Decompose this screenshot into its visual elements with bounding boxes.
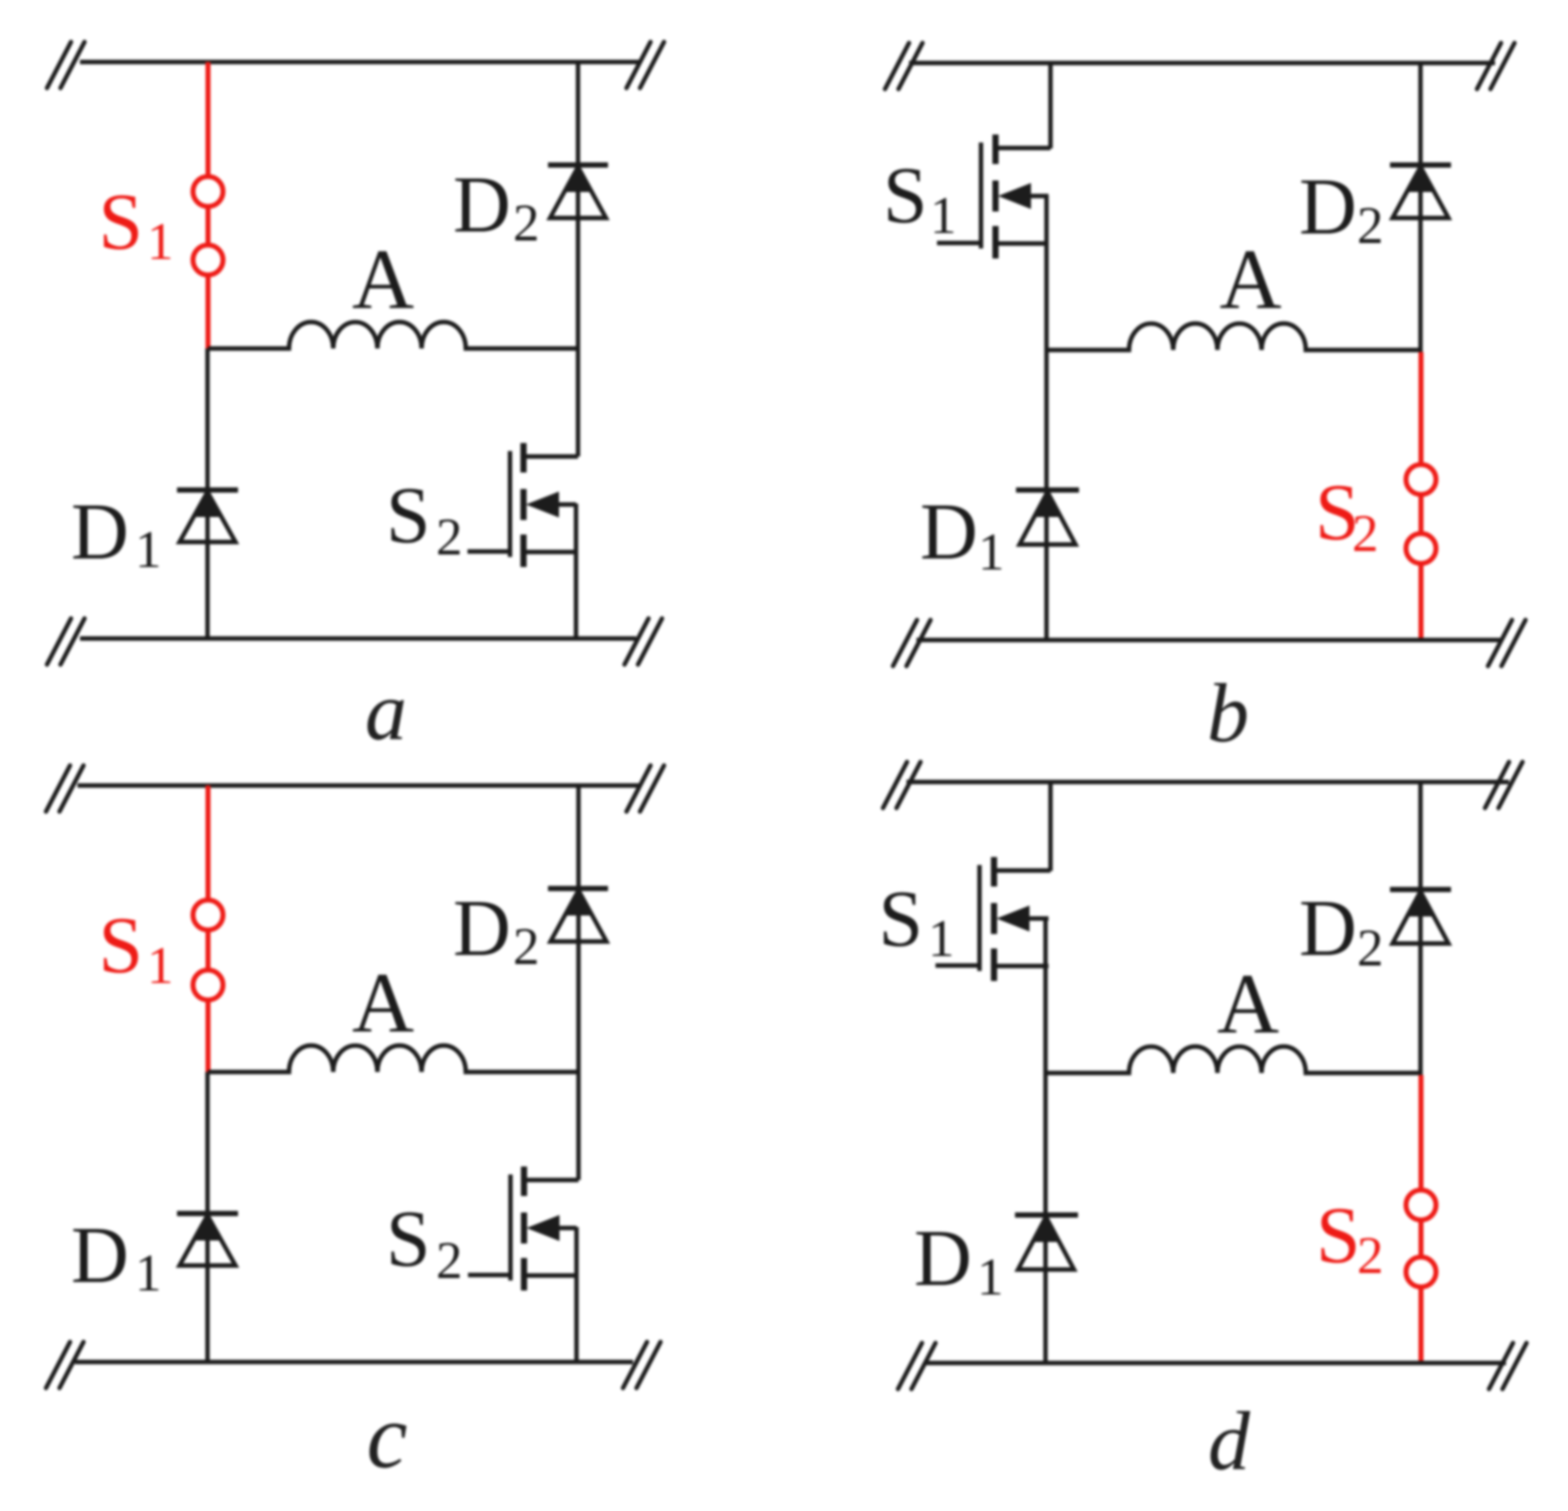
svg-text:S: S [386,1196,431,1284]
label S1 (c) [99,902,174,995]
svg-text:A: A [352,231,414,327]
svg-text:2: 2 [1352,505,1379,563]
svg-text:D: D [453,162,511,250]
bottom return rail (d) [924,1361,1506,1365]
wire: left leg (a) [205,349,209,639]
wire: right leg (b) [1418,63,1422,352]
inductor A (d) [1046,1046,1422,1073]
svg-text:A: A [1217,956,1279,1052]
top supply rail (d) [907,780,1510,784]
rail break (c top-left) [46,766,84,812]
transistor S2 (a) [468,443,579,567]
transistor S2 (c) [468,1167,579,1291]
label A (c) [352,955,414,1051]
wire: left leg (c) [205,1072,209,1362]
wire: S2 source drop (c) [574,1227,578,1362]
svg-text:d: d [1208,1395,1251,1488]
svg-text:2: 2 [436,509,463,567]
diode D1 (c) [177,1214,238,1266]
inductor A (b) [1047,323,1422,350]
wire: left leg (b) [1044,195,1048,640]
inductor A (c) [208,1046,579,1073]
wire: S1 drain drop (d) [1048,782,1052,871]
svg-text:S: S [386,472,431,560]
svg-text:c: c [367,1385,408,1487]
svg-text:1: 1 [930,187,957,245]
inductor A (a) [208,322,578,349]
svg-text:D: D [920,489,978,577]
rail break (a top-right) [627,42,665,88]
rail break (b bottom-right) [1488,620,1526,666]
svg-text:1: 1 [978,524,1005,582]
wire: right leg (c) [576,786,580,1181]
bottom return rail (b) [917,638,1501,642]
label S1 (b) [883,152,957,245]
label D1 (d) [914,1215,1004,1307]
label S2 (d) [1316,1192,1384,1285]
svg-text:D: D [453,885,511,973]
svg-text:S: S [99,179,144,267]
rail break (d bottom-left) [898,1343,936,1389]
svg-text:a: a [365,665,407,758]
rail break (b bottom-left) [893,620,931,666]
svg-text:1: 1 [135,521,162,579]
svg-text:D: D [71,489,129,577]
bottom return rail (c) [75,1360,633,1364]
label S1 (a) [99,179,174,272]
rail break (c bottom-left) [46,1342,84,1388]
svg-text:2: 2 [513,918,540,976]
svg-text:D: D [71,1212,129,1300]
wire: right leg (a) [576,62,580,457]
svg-text:1: 1 [147,937,174,995]
transistor S1 (b) [937,135,1051,259]
svg-text:1: 1 [147,213,174,271]
svg-text:2: 2 [513,195,540,253]
label S2 (b) [1315,469,1379,563]
svg-text:1: 1 [977,1249,1004,1307]
bottom return rail (a) [80,636,636,640]
switch S1 (a) [193,62,223,349]
wire: S1 drain drop (b) [1048,63,1052,149]
svg-text:2: 2 [1357,197,1384,255]
label D1 (b) [920,489,1005,582]
diode D2 (a) [548,165,608,218]
wire: S2 source drop (a) [574,504,578,639]
rail break (b top-right) [1477,43,1515,89]
rail break (c top-right) [627,766,665,812]
rail break (a bottom-left) [47,619,85,665]
wire: left leg (d) [1043,918,1047,1364]
rail break (a bottom-right) [625,619,663,665]
svg-text:1: 1 [135,1245,162,1303]
svg-text:S: S [1316,1192,1361,1280]
svg-text:D: D [1299,164,1357,252]
diode D1 (b) [1016,490,1079,545]
top supply rail (a) [80,60,640,64]
rail break (d top-right) [1485,762,1523,808]
svg-text:2: 2 [436,1232,463,1290]
label A (b) [1220,231,1282,327]
top supply rail (b) [909,61,1495,65]
label S2 (a) [386,472,463,567]
label S2 (c) [386,1196,463,1291]
label D1 (c) [71,1212,162,1303]
svg-text:2: 2 [1357,920,1384,978]
svg-text:D: D [1299,885,1357,973]
rail break (d bottom-right) [1489,1343,1527,1389]
svg-text:D: D [914,1215,972,1303]
svg-text:A: A [1220,231,1282,327]
label D2 (a) [453,162,540,253]
rail break (c bottom-right) [623,1342,661,1388]
transistor S1 (d) [936,857,1051,981]
svg-text:1: 1 [928,910,955,968]
svg-text:S: S [883,152,928,240]
rail break (a top-left) [47,42,85,88]
label D2 (d) [1299,885,1384,978]
label D2 (c) [453,885,540,976]
label A (d) [1217,956,1279,1052]
svg-text:b: b [1207,667,1249,760]
svg-text:2: 2 [1357,1227,1384,1285]
wire: right leg (d) [1418,782,1422,1075]
top supply rail (c) [78,783,641,787]
diode D2 (b) [1390,165,1451,218]
rail break (d top-left) [883,762,921,808]
diode D1 (a) [177,490,238,542]
label S1 (d) [879,876,955,969]
diode D1 (d) [1015,1215,1078,1270]
svg-text:S: S [99,902,144,990]
label D2 (b) [1299,164,1384,256]
svg-text:A: A [352,955,414,1051]
diode D2 (d) [1390,890,1451,944]
label A (a) [352,231,414,327]
svg-text:S: S [879,876,924,964]
switch S2 (d) [1406,1075,1436,1363]
label D1 (a) [71,489,162,580]
rail break (b top-left) [885,43,923,89]
switch S2 (b) [1406,352,1436,640]
switch S1 (c) [193,786,223,1073]
diode D2 (c) [548,889,608,942]
